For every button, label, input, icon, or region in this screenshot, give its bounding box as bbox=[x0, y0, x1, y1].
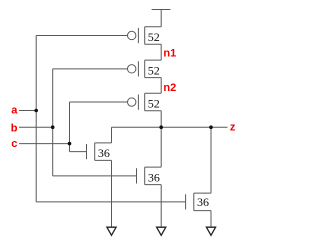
svg-text:36: 36 bbox=[197, 195, 209, 209]
svg-text:a: a bbox=[11, 104, 18, 116]
svg-text:52: 52 bbox=[148, 97, 160, 111]
svg-text:36: 36 bbox=[98, 146, 110, 160]
svg-text:n1: n1 bbox=[163, 48, 176, 60]
svg-text:52: 52 bbox=[148, 30, 160, 44]
svg-text:52: 52 bbox=[148, 63, 160, 77]
svg-text:n2: n2 bbox=[163, 82, 176, 94]
svg-text:c: c bbox=[11, 138, 17, 150]
svg-text:b: b bbox=[11, 122, 18, 134]
svg-text:z: z bbox=[230, 121, 236, 133]
svg-text:36: 36 bbox=[148, 170, 160, 184]
